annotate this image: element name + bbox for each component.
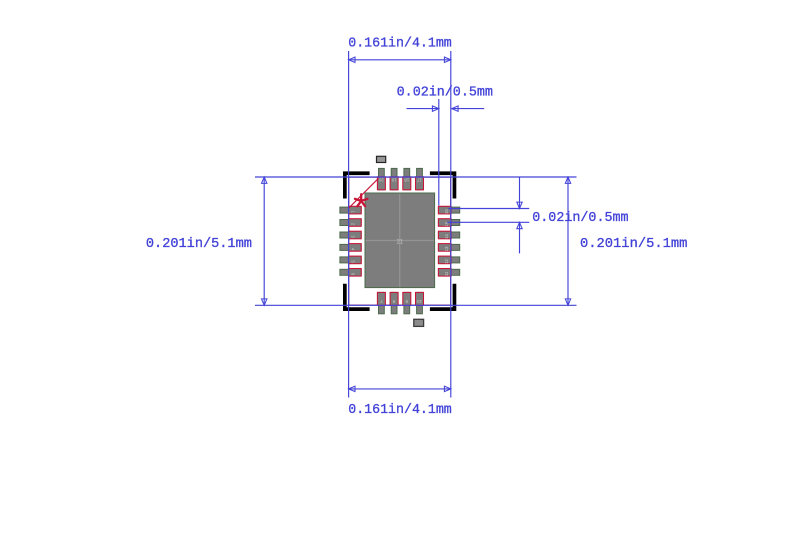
lead pin 20 <box>377 177 385 190</box>
lead pin 2 <box>349 219 362 227</box>
lead pin 7 <box>377 292 385 305</box>
dimension line left 5.1mm <box>263 177 265 305</box>
index mark square top <box>377 156 386 162</box>
pad land pin 19 <box>391 168 397 189</box>
lead pin 4 <box>349 244 362 252</box>
svg-text:16: 16 <box>444 209 449 214</box>
pad land pin 14 <box>438 232 459 238</box>
pad land pin 1 <box>340 207 361 213</box>
pad land pin 2 <box>340 220 361 226</box>
pad land pin 17 <box>417 168 423 189</box>
svg-text:18: 18 <box>404 177 409 182</box>
corner bracket bottom-right <box>430 284 456 311</box>
pad land pin 16 <box>438 207 459 213</box>
lead pin 19 <box>390 177 398 190</box>
dimension line top 0.5mm left segment <box>407 108 439 110</box>
dimension line bottom 4.1mm <box>349 388 451 390</box>
corner bracket top-right <box>430 171 456 198</box>
extension line pin15 pitch y=222.3 <box>447 221 529 223</box>
corner bracket top-left <box>343 171 370 198</box>
lead pin 10 <box>416 292 424 305</box>
lead pin 14 <box>438 231 451 239</box>
pad land pin 3 <box>340 232 361 238</box>
extension line pin16 pitch y=208.5 <box>448 208 529 210</box>
lead pin 17 <box>416 177 424 190</box>
svg-text:0.201in/5.1mm: 0.201in/5.1mm <box>580 236 687 252</box>
lead pin 15 <box>438 219 451 227</box>
pad land pin 20 <box>379 168 385 189</box>
svg-text:17: 17 <box>417 177 422 182</box>
extension line top horizontal y=177 <box>255 176 577 178</box>
pin 1 indicator line <box>349 178 379 208</box>
pad land pin 15 <box>438 220 459 226</box>
dimension line right 5.1mm <box>567 177 569 305</box>
pad land pin 11 <box>438 269 459 275</box>
lead pin 6 <box>349 269 362 277</box>
svg-text:11: 11 <box>444 271 449 276</box>
pin 1 asterisk <box>355 194 368 206</box>
lead pin 8 <box>390 292 398 305</box>
lead pin 9 <box>403 292 411 305</box>
lead pin 11 <box>438 269 451 277</box>
lead pin 5 <box>349 256 362 264</box>
dimension line top 0.5mm right segment <box>452 108 485 110</box>
pad land pin 13 <box>438 244 459 250</box>
extension line right vertical x=450.8 <box>450 51 452 398</box>
lead pin 12 <box>438 256 451 264</box>
svg-text:13: 13 <box>444 246 449 251</box>
lead pin 3 <box>349 231 362 239</box>
corner bracket bottom-left <box>343 284 370 311</box>
svg-text:21: 21 <box>396 240 403 246</box>
dimension line top 4.1mm <box>349 59 451 61</box>
lead pin 18 <box>403 177 411 190</box>
svg-text:0.161in/4.1mm: 0.161in/4.1mm <box>348 402 452 418</box>
pad land pin 10 <box>417 292 423 313</box>
exposed pad pin 21 <box>365 193 435 288</box>
pad land pin 4 <box>340 244 361 250</box>
svg-text:19: 19 <box>391 177 396 182</box>
svg-text:0.201in/5.1mm: 0.201in/5.1mm <box>146 236 252 252</box>
extension line x=438.8 for 0.5mm lead <box>438 99 440 206</box>
pad land pin 12 <box>438 257 459 263</box>
dimension line right 0.5mm pitch upper segment <box>519 178 521 209</box>
extension line left vertical x=348.6 <box>348 51 350 398</box>
svg-text:12: 12 <box>444 259 449 264</box>
lead pin 16 <box>438 206 451 214</box>
lead pin 1 <box>349 206 362 214</box>
index mark square bottom <box>414 319 424 326</box>
svg-text:0.02in/0.5mm: 0.02in/0.5mm <box>532 210 628 226</box>
svg-text:20: 20 <box>378 177 383 182</box>
svg-text:10: 10 <box>417 299 422 304</box>
lead pin 13 <box>438 244 451 252</box>
svg-text:14: 14 <box>444 234 449 239</box>
pad land pin 8 <box>391 292 397 313</box>
svg-text:0.161in/4.1mm: 0.161in/4.1mm <box>348 35 452 51</box>
svg-text:0.02in/0.5mm: 0.02in/0.5mm <box>397 84 493 100</box>
pad land pin 7 <box>379 292 385 313</box>
pad land pin 18 <box>404 168 410 189</box>
pad land pin 6 <box>340 269 361 275</box>
dimension line right 0.5mm pitch lower segment <box>519 222 521 253</box>
pad land pin 9 <box>404 292 410 313</box>
pad land pin 5 <box>340 257 361 263</box>
extension line bottom horizontal y=305.3 <box>255 304 577 306</box>
package body outline <box>349 177 451 305</box>
